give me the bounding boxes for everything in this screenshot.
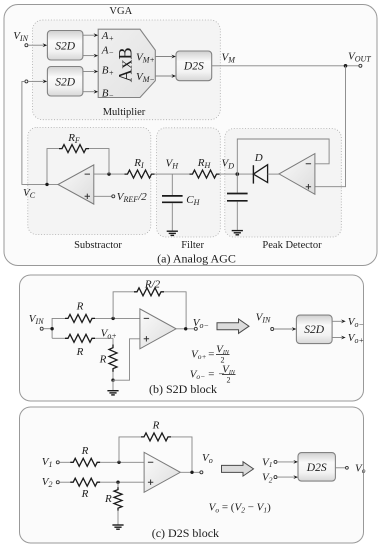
substractor dashed box bbox=[28, 127, 151, 234]
resistor RF bbox=[59, 145, 89, 153]
wire S2D2 out- to multiplier B- bbox=[83, 90, 98, 94]
wire peak cap to ground bbox=[236, 202, 238, 231]
wire top R to minus input (c) bbox=[100, 461, 144, 463]
wire output (b) bbox=[176, 328, 194, 330]
block D2S bbox=[176, 51, 212, 81]
svg-text:Multiplier: Multiplier bbox=[103, 107, 146, 118]
wire S2D out+ (b) bbox=[332, 336, 346, 340]
resistor R feedback (c) bbox=[141, 433, 171, 441]
node VREF/2 terminal bbox=[112, 195, 115, 198]
VGA dashed box bbox=[33, 20, 221, 120]
svg-text:R: R bbox=[152, 419, 160, 431]
wire bottom R to Vo+ node (b) bbox=[95, 337, 113, 339]
node junction VOUT bbox=[344, 64, 348, 68]
resistor RH bbox=[190, 170, 220, 178]
svg-text:R: R bbox=[99, 353, 107, 365]
wire bottom R to plus input (c) bbox=[100, 481, 144, 483]
svg-text:VGA: VGA bbox=[109, 6, 132, 17]
svg-text:R: R bbox=[104, 493, 112, 505]
node substractor output junction bbox=[45, 183, 48, 186]
resistor R bottom (b) bbox=[65, 334, 95, 342]
wire D2S out (c) bbox=[335, 467, 345, 469]
wire VC tap to S2D2 bbox=[28, 80, 47, 84]
multiplier AxB bbox=[98, 29, 155, 97]
resistor R vertical (b) bbox=[109, 338, 117, 380]
resistor R/2 (b) bbox=[134, 288, 164, 296]
node plus junction (c) bbox=[116, 481, 119, 484]
diode D bbox=[253, 165, 267, 184]
node minus junction (b) bbox=[111, 317, 114, 320]
wire top R to minus input (b) bbox=[95, 317, 140, 319]
ground CH bbox=[167, 231, 178, 235]
ground peak detector bbox=[232, 231, 243, 235]
svg-text:(c) D2S block: (c) D2S block bbox=[152, 526, 219, 540]
big arrow (b) bbox=[217, 319, 249, 333]
wire S2D1 out+ to multiplier A+ bbox=[83, 33, 98, 37]
svg-text:R: R bbox=[81, 445, 89, 457]
block S2D1 bbox=[47, 31, 83, 61]
block D2S (c) bbox=[298, 453, 335, 482]
wire S2D1 out- to multiplier A- bbox=[83, 54, 98, 58]
svg-text:R: R bbox=[81, 488, 89, 500]
resistor R vertical (c) bbox=[114, 482, 122, 524]
wire S2D out- (b) bbox=[332, 319, 346, 323]
node Vo- terminal (b) bbox=[194, 327, 197, 330]
wire RI to RH rail bbox=[155, 173, 190, 175]
wire multiplier VM+ to D2S bbox=[155, 55, 176, 59]
node Vo terminal right (c) bbox=[346, 466, 349, 469]
capacitor peak detector bbox=[227, 194, 248, 201]
wire output (c) bbox=[180, 471, 200, 473]
wire V2 to R (c) bbox=[59, 481, 70, 483]
node Vo terminal (c) bbox=[200, 471, 203, 474]
node substractor minus junction bbox=[107, 172, 110, 175]
resistor R top (b) bbox=[65, 314, 95, 322]
node V2 terminal right (c) bbox=[274, 476, 277, 479]
svg-text:Peak Detector: Peak Detector bbox=[262, 240, 322, 251]
filter dashed box bbox=[157, 128, 221, 237]
wire VIN to S2D block (b) bbox=[274, 327, 297, 331]
wire substractor minus input bbox=[94, 173, 125, 175]
node VC tap terminal bbox=[25, 80, 28, 83]
svg-text:D2S: D2S bbox=[183, 61, 204, 73]
svg-text:D2S: D2S bbox=[306, 462, 327, 474]
resistor R top (c) bbox=[70, 458, 100, 466]
node VIN terminal right (b) bbox=[271, 328, 274, 331]
resistor RI bbox=[125, 170, 155, 178]
node V2 terminal (c) bbox=[56, 481, 59, 484]
svg-text:S2D: S2D bbox=[55, 76, 76, 88]
block S2D (b) bbox=[296, 315, 332, 344]
op-amp U1 substractor bbox=[58, 165, 94, 204]
wire S2D2 out+ to multiplier B+ bbox=[83, 70, 98, 74]
resistor R bottom (c) bbox=[70, 478, 100, 486]
wire RH to VD bbox=[220, 173, 254, 175]
big arrow (c) bbox=[222, 462, 254, 476]
wire VIN split (b) bbox=[43, 318, 65, 338]
wire R feedback (c) bbox=[119, 437, 192, 472]
block S2D2 bbox=[47, 67, 83, 97]
node VIN junction (b) bbox=[50, 327, 53, 330]
svg-text:Vo: Vo bbox=[355, 462, 366, 475]
wire peak detector feedback bbox=[237, 139, 329, 174]
svg-text:(b) S2D block: (b) S2D block bbox=[149, 382, 217, 396]
wire V2 to D2S (c) bbox=[277, 475, 298, 479]
wire R/2 feedback (b) bbox=[113, 292, 186, 329]
svg-text:R/2: R/2 bbox=[144, 279, 161, 291]
wire multiplier VM- to D2S bbox=[155, 74, 176, 78]
wire diode anode to op-amp output bbox=[268, 173, 279, 175]
node VIN terminal (b) bbox=[40, 327, 43, 330]
svg-text:R: R bbox=[76, 300, 84, 312]
peak detector dashed box bbox=[225, 129, 341, 237]
svg-text:R: R bbox=[76, 346, 84, 358]
node output junction (c) bbox=[190, 471, 193, 474]
svg-text:2: 2 bbox=[227, 375, 231, 384]
equation Vo- (b) bbox=[190, 364, 236, 385]
ground (b) bbox=[107, 391, 118, 395]
capacitor CH bbox=[162, 196, 183, 202]
wire RF feedback bbox=[47, 149, 109, 185]
wire V1 to R (c) bbox=[59, 461, 70, 463]
svg-text:=: = bbox=[208, 348, 215, 360]
node V1 terminal (c) bbox=[56, 461, 59, 464]
node VD junction bbox=[236, 172, 240, 176]
svg-text:S2D: S2D bbox=[304, 324, 325, 336]
equation Vo+ (b) bbox=[191, 344, 230, 365]
wire VC feedback vertical bbox=[22, 81, 58, 184]
op-amp U4 (c) bbox=[144, 452, 180, 492]
svg-text:S2D: S2D bbox=[55, 40, 76, 52]
wire VH down to CH bbox=[171, 174, 173, 195]
op-amp U2 peak detector bbox=[279, 154, 315, 195]
node output junction (b) bbox=[184, 327, 187, 330]
node V1 terminal right (c) bbox=[274, 460, 277, 463]
svg-text:D: D bbox=[254, 152, 263, 164]
svg-text:(a) Analog AGC: (a) Analog AGC bbox=[157, 251, 236, 265]
node VIN terminal bbox=[25, 44, 28, 47]
wire junction to ground (b) bbox=[112, 380, 114, 390]
node ground junction (b) bbox=[111, 379, 114, 382]
svg-text:Substractor: Substractor bbox=[74, 240, 122, 251]
svg-text:AxB: AxB bbox=[116, 47, 136, 82]
wire V1 to D2S (c) bbox=[277, 460, 298, 464]
wire CH to ground bbox=[171, 203, 173, 231]
wire VM rail to VOUT bbox=[212, 65, 359, 67]
panel (c) frame bbox=[20, 407, 364, 543]
ground (c) bbox=[112, 525, 123, 529]
svg-text:Filter: Filter bbox=[181, 240, 204, 251]
panel (a) frame bbox=[4, 5, 377, 266]
op-amp U3 (b) bbox=[140, 309, 176, 349]
node VOUT terminal bbox=[359, 64, 362, 67]
node minus junction (c) bbox=[117, 461, 120, 464]
wire VIN to S2D1 bbox=[28, 43, 47, 47]
wire substractor plus input bbox=[94, 195, 112, 197]
panel (b) frame bbox=[20, 275, 364, 401]
wire VD down to peak cap bbox=[236, 174, 238, 193]
wire VOUT down to peak detector + input bbox=[315, 66, 346, 187]
wire plus input from ground node (b) bbox=[113, 339, 140, 380]
